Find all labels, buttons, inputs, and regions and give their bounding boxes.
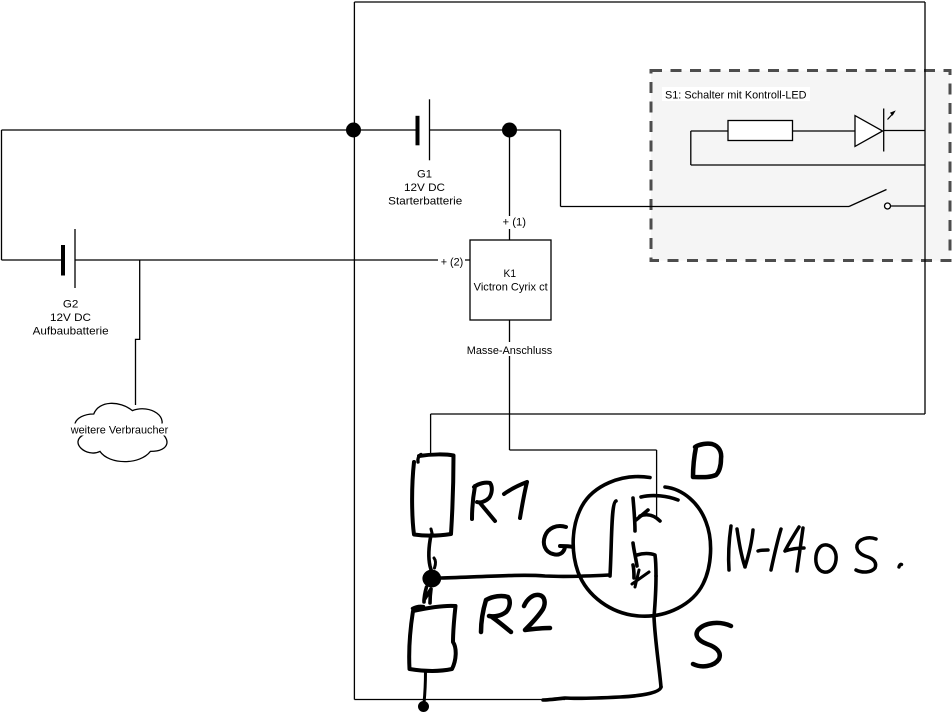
svg-text:Starterbatterie: Starterbatterie: [388, 196, 462, 208]
svg-text:G2: G2: [63, 299, 79, 311]
svg-text:+ (2): + (2): [441, 257, 464, 269]
svg-text:+ (1): + (1): [503, 216, 527, 228]
svg-text:12V DC: 12V DC: [404, 182, 445, 194]
svg-text:Aufbaubatterie: Aufbaubatterie: [33, 326, 109, 338]
svg-text:K1: K1: [504, 268, 517, 280]
svg-text:G1: G1: [417, 168, 432, 180]
svg-text:Masse-Anschluss: Masse-Anschluss: [467, 345, 553, 357]
svg-text:Victron Cyrix ct: Victron Cyrix ct: [474, 282, 548, 294]
svg-text:weitere Verbraucher: weitere Verbraucher: [70, 424, 169, 436]
svg-text:12V DC: 12V DC: [50, 312, 91, 324]
svg-text:S1: Schalter mit Kontroll-LED: S1: Schalter mit Kontroll-LED: [665, 90, 807, 102]
